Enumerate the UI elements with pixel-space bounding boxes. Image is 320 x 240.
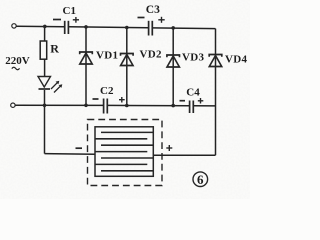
svg-text:VD4: VD4 — [225, 53, 247, 65]
svg-text:C3: C3 — [146, 4, 160, 16]
svg-text:VD2: VD2 — [140, 49, 162, 61]
svg-text:220V: 220V — [5, 55, 30, 67]
svg-text:C1: C1 — [63, 5, 76, 17]
svg-text:6: 6 — [197, 172, 204, 187]
svg-text:R: R — [50, 42, 59, 56]
svg-text:VD1: VD1 — [96, 49, 118, 61]
svg-text:C2: C2 — [100, 85, 114, 97]
svg-text:VD3: VD3 — [182, 51, 204, 63]
svg-text:C4: C4 — [186, 87, 200, 99]
